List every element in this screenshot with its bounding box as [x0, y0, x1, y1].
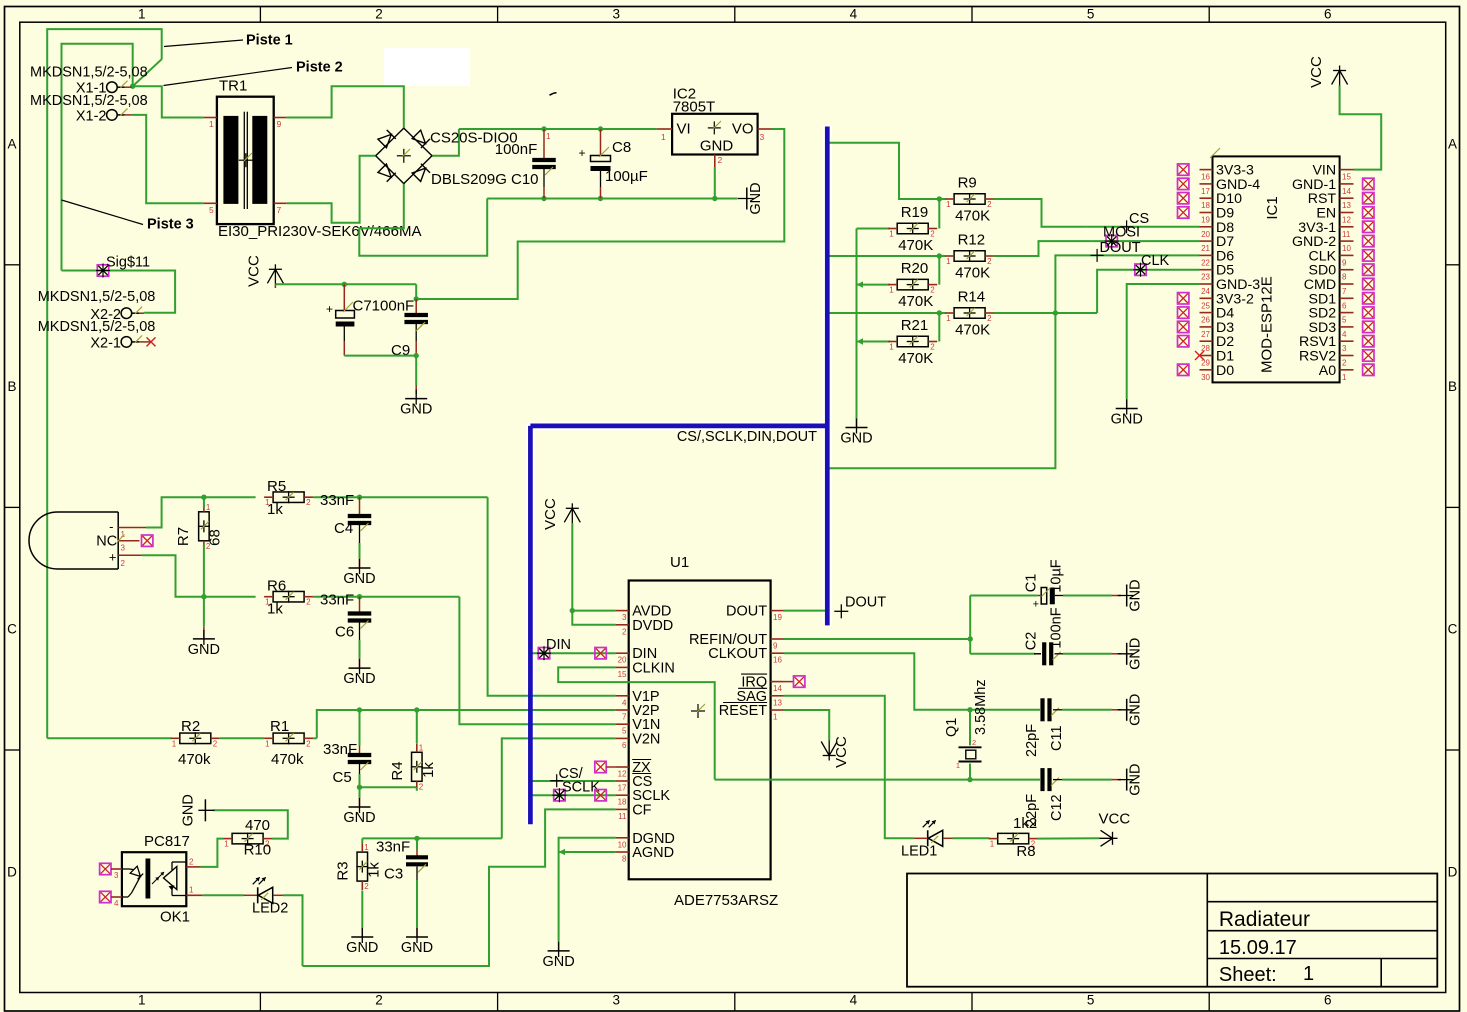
svg-text:3: 3 [760, 132, 765, 142]
svg-text:6: 6 [1324, 7, 1332, 22]
svg-text:16: 16 [773, 656, 782, 665]
svg-text:+: + [326, 302, 333, 316]
svg-text:D0: D0 [1216, 363, 1234, 379]
svg-text:2: 2 [1342, 359, 1347, 368]
svg-text:33nF: 33nF [323, 741, 357, 758]
svg-text:7805T: 7805T [673, 99, 716, 116]
svg-text:D: D [1448, 864, 1458, 879]
svg-text:B: B [7, 379, 16, 394]
svg-text:5: 5 [209, 205, 214, 215]
svg-text:3: 3 [121, 544, 126, 553]
svg-text:DIN: DIN [546, 637, 571, 653]
svg-text:15: 15 [1342, 173, 1351, 182]
svg-text:2: 2 [213, 739, 218, 748]
svg-text:1: 1 [189, 886, 194, 895]
svg-text:21: 21 [1201, 244, 1210, 253]
svg-text:1k2: 1k2 [1013, 815, 1037, 832]
svg-text:3: 3 [622, 613, 627, 622]
svg-text:AGND: AGND [632, 845, 674, 861]
svg-text:9: 9 [773, 642, 778, 651]
svg-text:CLK: CLK [1141, 253, 1170, 269]
svg-text:GND: GND [400, 402, 432, 418]
svg-text:GND: GND [180, 794, 196, 826]
svg-text:R6: R6 [267, 578, 286, 595]
svg-text:12: 12 [1342, 216, 1351, 225]
svg-text:7: 7 [1342, 287, 1347, 296]
svg-text:VCC: VCC [246, 255, 263, 287]
svg-text:1k: 1k [420, 762, 437, 778]
svg-text:LED2: LED2 [252, 901, 288, 917]
svg-text:2: 2 [189, 858, 194, 867]
svg-text:4: 4 [850, 7, 858, 22]
svg-text:33nF: 33nF [376, 839, 410, 856]
svg-text:1: 1 [419, 743, 424, 752]
svg-text:R8: R8 [1016, 843, 1035, 860]
svg-text:EI30_PRI230V-SEK6V/466MA: EI30_PRI230V-SEK6V/466MA [218, 223, 421, 240]
svg-text:18: 18 [618, 798, 627, 807]
svg-text:1: 1 [172, 739, 177, 748]
svg-text:GND: GND [401, 940, 433, 956]
svg-text:DBLS209G: DBLS209G [431, 171, 507, 188]
svg-text:1k: 1k [267, 501, 283, 518]
svg-text:GND: GND [343, 671, 375, 687]
svg-text:-: - [109, 519, 113, 534]
svg-text:+: + [578, 146, 585, 160]
svg-text:GND: GND [343, 571, 375, 587]
svg-text:B: B [1448, 379, 1457, 394]
svg-text:13: 13 [1342, 201, 1351, 210]
svg-text:R4: R4 [389, 761, 406, 780]
svg-text:20: 20 [1201, 230, 1210, 239]
svg-text:2: 2 [364, 882, 369, 891]
svg-text:DOUT: DOUT [726, 604, 767, 620]
svg-text:CLKOUT: CLKOUT [708, 646, 767, 662]
svg-text:1: 1 [956, 761, 960, 770]
svg-text:29: 29 [1201, 359, 1210, 368]
svg-text:1k: 1k [267, 601, 283, 618]
svg-text:3: 3 [612, 993, 620, 1008]
svg-text:A0: A0 [1319, 363, 1336, 379]
svg-text:12: 12 [618, 770, 627, 779]
svg-text:7: 7 [277, 205, 282, 215]
svg-text:1: 1 [364, 843, 369, 852]
svg-text:R10: R10 [244, 842, 272, 859]
svg-text:R20: R20 [901, 260, 929, 277]
svg-text:GND: GND [1128, 579, 1144, 611]
svg-text:27: 27 [1201, 330, 1210, 339]
svg-text:15.09.17: 15.09.17 [1219, 937, 1297, 959]
svg-text:C4: C4 [334, 520, 353, 537]
svg-text:9: 9 [277, 119, 282, 129]
svg-text:RESET: RESET [719, 703, 767, 719]
svg-text:C: C [7, 622, 17, 637]
svg-text:26: 26 [1201, 316, 1210, 325]
svg-text:R7: R7 [175, 527, 192, 546]
svg-text:GND: GND [1128, 694, 1144, 726]
svg-text:14: 14 [1342, 187, 1351, 196]
svg-text:100µF: 100µF [605, 168, 648, 185]
svg-text:VI: VI [677, 121, 691, 138]
svg-text:C2: C2 [1024, 632, 1040, 651]
svg-text:D: D [7, 864, 17, 879]
svg-text:VCC: VCC [1099, 811, 1131, 828]
svg-text:1: 1 [206, 503, 211, 512]
svg-text:MKDSN1,5/2-5,08: MKDSN1,5/2-5,08 [30, 93, 148, 109]
svg-text:11: 11 [618, 812, 627, 821]
svg-text:C12: C12 [1049, 794, 1065, 821]
svg-text:5: 5 [1087, 993, 1095, 1008]
svg-text:1: 1 [1303, 963, 1314, 985]
svg-text:R14: R14 [958, 289, 986, 306]
svg-text:R2: R2 [181, 718, 200, 735]
svg-text:22pF: 22pF [1024, 724, 1040, 757]
svg-text:470K: 470K [898, 237, 933, 254]
svg-text:7: 7 [622, 713, 627, 722]
svg-text:470K: 470K [955, 265, 990, 282]
svg-text:2: 2 [306, 598, 311, 607]
svg-text:GND: GND [1111, 412, 1143, 428]
svg-text:2: 2 [375, 993, 383, 1008]
svg-text:GND: GND [343, 810, 375, 826]
svg-text:Piste 1: Piste 1 [246, 33, 293, 49]
svg-text:C1: C1 [1024, 574, 1040, 593]
svg-text:1: 1 [990, 840, 995, 849]
svg-text:8: 8 [1342, 273, 1347, 282]
svg-text:A: A [7, 137, 16, 152]
svg-text:1: 1 [773, 713, 778, 722]
svg-text:17: 17 [618, 784, 627, 793]
svg-text:4: 4 [622, 698, 627, 707]
svg-text:24: 24 [1201, 287, 1210, 296]
svg-text:1: 1 [889, 286, 894, 295]
svg-text:GND: GND [840, 431, 872, 447]
svg-text:Sig$11: Sig$11 [106, 255, 150, 271]
svg-text:MOD-ESP12E: MOD-ESP12E [1259, 276, 1276, 373]
svg-text:68: 68 [207, 529, 224, 546]
svg-text:9: 9 [1342, 258, 1347, 267]
svg-text:PC817: PC817 [144, 833, 190, 850]
svg-text:DOUT: DOUT [1100, 240, 1141, 256]
svg-text:GND: GND [748, 182, 764, 214]
svg-text:10: 10 [1342, 244, 1351, 253]
svg-text:1: 1 [138, 993, 146, 1008]
svg-text:V2N: V2N [632, 731, 660, 747]
svg-text:C6: C6 [335, 624, 354, 641]
svg-text:1: 1 [209, 119, 214, 129]
svg-text:+: + [109, 550, 117, 565]
svg-text:15: 15 [618, 670, 627, 679]
svg-text:470k: 470k [178, 751, 211, 768]
svg-text:C11: C11 [1049, 725, 1065, 751]
svg-text:Sheet:: Sheet: [1219, 964, 1277, 986]
svg-text:2: 2 [375, 7, 383, 22]
svg-text:MKDSN1,5/2-5,08: MKDSN1,5/2-5,08 [30, 65, 148, 81]
svg-text:C8: C8 [612, 139, 631, 156]
svg-text:R5: R5 [267, 478, 286, 495]
svg-text:CS/,SCLK,DIN,DOUT: CS/,SCLK,DIN,DOUT [677, 429, 817, 445]
svg-text:2: 2 [718, 155, 723, 165]
svg-text:+: + [1033, 599, 1039, 611]
svg-text:MKDSN1,5/2-5,08: MKDSN1,5/2-5,08 [38, 289, 156, 305]
svg-text:2: 2 [121, 559, 126, 568]
svg-text:5: 5 [1087, 7, 1095, 22]
svg-text:ADE7753ARSZ: ADE7753ARSZ [674, 892, 778, 909]
svg-text:GND: GND [542, 954, 574, 970]
svg-text:DOUT: DOUT [845, 595, 886, 611]
svg-text:Piste 2: Piste 2 [296, 60, 343, 76]
svg-text:1: 1 [661, 132, 666, 142]
svg-text:GND: GND [346, 940, 378, 956]
svg-text:1: 1 [889, 230, 894, 239]
svg-text:TR1: TR1 [219, 78, 247, 95]
svg-text:25: 25 [1201, 301, 1210, 310]
svg-text:VCC: VCC [1308, 56, 1325, 88]
svg-text:4: 4 [850, 993, 858, 1008]
svg-text:MKDSN1,5/2-5,08: MKDSN1,5/2-5,08 [38, 319, 156, 335]
svg-text:VCC: VCC [542, 498, 559, 530]
svg-text:2: 2 [306, 739, 311, 748]
svg-text:19: 19 [1201, 216, 1210, 225]
svg-text:1: 1 [265, 739, 270, 748]
svg-text:R1: R1 [270, 718, 289, 735]
svg-text:NC: NC [96, 534, 117, 550]
svg-text:470K: 470K [955, 322, 990, 339]
svg-text:470k: 470k [271, 751, 304, 768]
svg-text:1: 1 [138, 7, 146, 22]
svg-text:6: 6 [1342, 301, 1347, 310]
svg-text:3: 3 [114, 871, 119, 880]
svg-text:3: 3 [1342, 344, 1347, 353]
svg-text:1: 1 [546, 132, 551, 141]
svg-text:1: 1 [1342, 373, 1347, 382]
svg-text:470K: 470K [955, 208, 990, 225]
svg-text:VO: VO [732, 121, 754, 138]
svg-text:C7100nF: C7100nF [353, 298, 415, 315]
svg-text:GND: GND [1128, 763, 1144, 795]
svg-text:X1-2: X1-2 [76, 109, 107, 125]
svg-text:C: C [1448, 622, 1458, 637]
svg-text:GND: GND [1128, 638, 1144, 670]
svg-text:5: 5 [622, 727, 627, 736]
svg-text:U1: U1 [670, 554, 689, 571]
svg-text:30: 30 [1201, 373, 1210, 382]
svg-text:CF: CF [632, 802, 651, 818]
svg-text:CLKIN: CLKIN [632, 660, 675, 676]
svg-text:1: 1 [224, 840, 229, 849]
svg-text:470K: 470K [898, 293, 933, 310]
svg-text:22: 22 [1201, 258, 1210, 267]
svg-text:11: 11 [1342, 230, 1351, 239]
svg-text:4: 4 [1342, 330, 1347, 339]
svg-text:R19: R19 [901, 204, 929, 221]
svg-text:2: 2 [622, 627, 627, 636]
svg-text:R9: R9 [958, 175, 977, 192]
svg-text:1: 1 [946, 200, 951, 209]
svg-text:100nF: 100nF [495, 141, 538, 158]
svg-text:4: 4 [114, 899, 119, 908]
svg-text:Radiateur: Radiateur [1219, 908, 1310, 931]
svg-text:R12: R12 [958, 232, 986, 249]
svg-text:470K: 470K [898, 350, 933, 367]
svg-text:C10: C10 [511, 171, 539, 188]
svg-text:16: 16 [1201, 173, 1210, 182]
svg-text:6: 6 [622, 741, 627, 750]
svg-text:X2-1: X2-1 [90, 335, 121, 351]
svg-text:100nF: 100nF [1049, 607, 1065, 648]
svg-text:R21: R21 [901, 317, 929, 334]
svg-text:VCC: VCC [833, 736, 850, 768]
svg-text:A: A [1448, 137, 1457, 152]
svg-text:C5: C5 [333, 769, 352, 786]
svg-text:20: 20 [618, 656, 627, 665]
svg-text:18: 18 [1201, 201, 1210, 210]
svg-text:10: 10 [618, 840, 627, 849]
svg-text:13: 13 [773, 698, 782, 707]
svg-text:C3: C3 [384, 866, 403, 883]
svg-text:33nF: 33nF [320, 592, 354, 609]
svg-text:3: 3 [612, 7, 620, 22]
svg-text:1k: 1k [366, 862, 383, 878]
svg-text:1: 1 [946, 257, 951, 266]
svg-text:R3: R3 [335, 861, 352, 880]
svg-text:Piste 3: Piste 3 [147, 217, 194, 233]
svg-text:5: 5 [1342, 316, 1347, 325]
svg-text:GND: GND [700, 138, 734, 155]
svg-text:14: 14 [773, 684, 782, 693]
svg-text:2: 2 [419, 782, 424, 791]
svg-text:10µF: 10µF [1049, 559, 1065, 592]
svg-text:Q1: Q1 [944, 718, 960, 737]
svg-text:LED1: LED1 [901, 844, 937, 860]
svg-text:17: 17 [1201, 187, 1210, 196]
svg-text:1: 1 [946, 314, 951, 323]
svg-text:19: 19 [773, 613, 782, 622]
svg-text:3.58Mhz: 3.58Mhz [973, 679, 989, 735]
svg-text:8: 8 [622, 855, 627, 864]
svg-text:1: 1 [889, 343, 894, 352]
svg-text:OK1: OK1 [160, 909, 190, 926]
svg-text:DVDD: DVDD [632, 618, 673, 634]
svg-text:2: 2 [306, 498, 311, 507]
svg-text:23: 23 [1201, 273, 1210, 282]
svg-text:470: 470 [245, 817, 270, 834]
svg-text:GND: GND [188, 642, 220, 658]
svg-text:MOSI: MOSI [1103, 225, 1140, 241]
svg-text:33nF: 33nF [320, 492, 354, 509]
svg-text:IC1: IC1 [1264, 196, 1281, 219]
svg-text:2: 2 [972, 738, 976, 747]
svg-text:6: 6 [1324, 993, 1332, 1008]
